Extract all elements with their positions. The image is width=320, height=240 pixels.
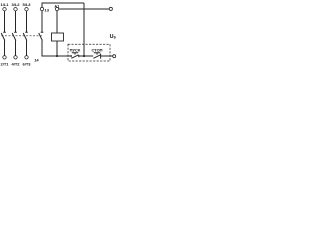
wire T2 lower [15,41,17,56]
svg-text:14: 14 [34,57,39,62]
svg-text:СТОП: СТОП [91,47,102,52]
svg-text:6/T3: 6/T3 [22,62,31,67]
svg-text:ПУСК: ПУСК [70,47,81,52]
svg-text:2/T1: 2/T1 [0,62,9,67]
stop button actuator [94,53,100,55]
main contact KM1 pole1 [1,32,6,40]
wire T1 lower [4,41,6,56]
wire coil top [56,11,58,33]
terminal circle Us top [109,7,112,10]
svg-text:3/L2: 3/L2 [11,2,20,7]
terminal circle 13 [40,7,43,10]
svg-text:4/T2: 4/T2 [11,62,20,67]
terminal circle 4/T2 [14,56,17,59]
wire L1 upper [4,11,6,32]
wire bottom run segment 3 [101,55,113,57]
start button actuator [72,53,78,55]
wire bottom run segment 1 [57,55,71,57]
svg-text:Us: Us [110,34,117,40]
wire L2 upper [15,11,17,32]
main contact KM1 pole3 [23,32,28,40]
wire aux lower to node A2 [42,41,56,57]
pushbutton station dashed box [68,44,110,61]
node A2 junction [56,55,58,57]
terminal circle Us bottom [113,55,116,58]
node between buttons [83,55,85,57]
wire coil bottom [56,41,58,56]
wire aux upper [41,11,43,32]
svg-text:13: 13 [45,7,50,12]
wire T3 lower [26,41,28,56]
svg-text:5/L3: 5/L3 [22,2,31,7]
terminal circle 3/L2 [14,8,17,11]
wire L3 upper [26,11,28,32]
wire A1 to Us top terminal [59,8,109,10]
terminal circle 2/T1 [3,56,6,59]
stop button NC contact [93,54,100,59]
terminal circle 6/T3 [25,56,28,59]
main contact KM1 pole2 [12,32,17,40]
svg-text:1/L1: 1/L1 [0,2,9,7]
wire top bus 13 to button box [42,3,84,7]
mechanical linkage dashed line [2,35,44,37]
start button NO contact [71,55,79,59]
terminal circle A1 [55,7,58,10]
coil KM1 [52,33,64,41]
terminal circle 5/L3 [25,8,28,11]
wire bottom run segment 2 [79,55,93,57]
aux contact KM1 13-14 [39,32,44,40]
wire drop from top bus to mid-button node [83,3,85,55]
terminal circle 1/L1 [3,8,6,11]
